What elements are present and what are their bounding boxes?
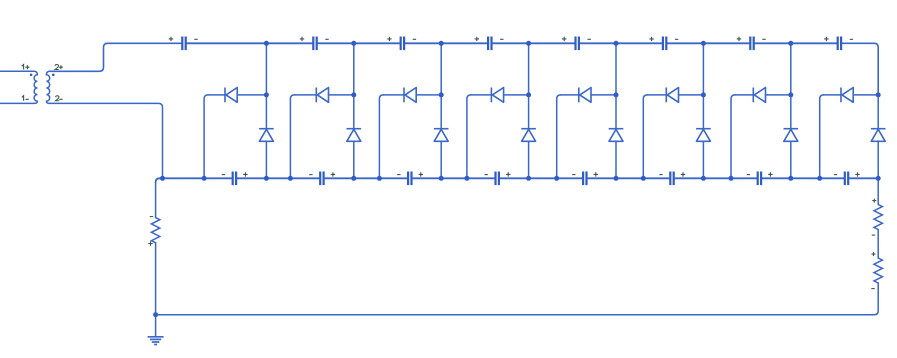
wire top rail right end + right rail upper bbox=[842, 43, 878, 95]
transformer T1 secondary winding bbox=[46, 71, 50, 103]
transformer T1 secondary phase dot bbox=[52, 74, 55, 77]
wire primary input bottom bbox=[0, 102, 34, 104]
diode D15 (vertical, points up) bbox=[784, 129, 799, 142]
wire vertical rail 2 upper bbox=[353, 43, 355, 128]
wire top rail segment 3 bbox=[405, 42, 487, 44]
wire bottom rail segment 5 bbox=[588, 177, 670, 179]
pin label 1- bbox=[22, 96, 29, 101]
wire vertical rail 6 upper bbox=[702, 43, 704, 128]
ground bbox=[148, 337, 164, 345]
capacitor C9 (bottom rail) bbox=[222, 172, 248, 186]
transformer T1 primary phase dot bbox=[30, 74, 33, 77]
wire vertical rail 6 lower bbox=[702, 141, 704, 178]
capacitor C5 (top rail) bbox=[562, 37, 591, 51]
wire secondary top to top rail bbox=[50, 43, 181, 71]
wire right rail bottom-to-R2 bbox=[877, 178, 879, 204]
wire bottom rail right end bbox=[849, 177, 878, 179]
wire vertical rail 2 lower bbox=[353, 141, 355, 178]
capacitor C1 (top rail) bbox=[169, 37, 198, 51]
diode D14 (vertical, points up) bbox=[696, 129, 711, 142]
diode D12 (vertical, points up) bbox=[521, 129, 536, 142]
wire vertical rail 4 lower bbox=[528, 141, 530, 178]
diode D5 (horizontal, points left) bbox=[561, 88, 616, 103]
diode D11 (vertical, points up) bbox=[434, 129, 449, 142]
wire secondary bottom return bbox=[50, 103, 163, 178]
capacitor C16 (bottom rail) bbox=[834, 172, 860, 186]
junction dots diode row bbox=[264, 92, 881, 97]
wire vertical rail 3 lower bbox=[440, 141, 442, 178]
wire top rail segment 7 bbox=[755, 42, 837, 44]
wire cell 2 left drop bbox=[290, 95, 294, 178]
wire cell 6 left drop bbox=[643, 95, 647, 178]
wire primary input top bbox=[0, 70, 34, 72]
wire right rail lower + bottom return bbox=[156, 283, 879, 315]
wire vertical rail 5 lower bbox=[615, 141, 617, 178]
wire left rail upper bbox=[155, 182, 157, 217]
wire vertical rail 5 upper bbox=[615, 43, 617, 128]
capacitor C15 (bottom rail) bbox=[747, 172, 773, 186]
capacitor C2 (top rail) bbox=[300, 37, 329, 51]
diode D3 (horizontal, points left) bbox=[383, 88, 441, 103]
wire vertical rail 4 upper bbox=[528, 43, 530, 128]
diode D10 (vertical, points up) bbox=[347, 129, 362, 142]
diode D8 (horizontal, points left) bbox=[824, 88, 879, 103]
wire vertical rail 8 lower bbox=[877, 141, 879, 178]
capacitor C11 (bottom rail) bbox=[397, 172, 423, 186]
wire vertical rail 1 lower bbox=[265, 141, 267, 178]
wire vertical rail 1 upper bbox=[265, 43, 267, 128]
diode D1 (horizontal, points left) bbox=[208, 88, 266, 103]
capacitor C12 (bottom rail) bbox=[485, 172, 511, 186]
diode D13 (vertical, points up) bbox=[609, 129, 624, 142]
wire right rail between resistors bbox=[877, 230, 879, 259]
diode D7 (horizontal, points left) bbox=[735, 88, 791, 103]
wire bottom rail segment 4 bbox=[500, 177, 582, 179]
wire cell 7 left drop bbox=[731, 95, 735, 178]
junction dots top rail bbox=[264, 41, 793, 46]
capacitor C6 (top rail) bbox=[649, 37, 678, 51]
wire vertical rail 8 mid bbox=[877, 95, 879, 129]
resistor R3 (right load lower) bbox=[874, 258, 882, 283]
wire top rail segment 4 bbox=[493, 42, 575, 44]
resistor R1 (left load) bbox=[151, 218, 159, 243]
wire bottom rail segment 7 bbox=[762, 177, 844, 179]
wire vertical rail 7 upper bbox=[790, 43, 792, 128]
diode D9 (vertical, points up) bbox=[259, 129, 274, 142]
label R3 - bbox=[871, 288, 874, 290]
diode D16 (vertical, points up) bbox=[871, 129, 886, 142]
wire top rail segment 5 bbox=[580, 42, 662, 44]
wire top rail segment 6 bbox=[667, 42, 749, 44]
wire vertical rail 3 upper bbox=[440, 43, 442, 128]
wire bottom rail left end bbox=[156, 178, 232, 182]
wire bottom rail segment 1 bbox=[237, 177, 319, 179]
label R1 + bbox=[148, 241, 152, 245]
label R1 - bbox=[150, 216, 153, 218]
wire bottom rail segment 6 bbox=[675, 177, 757, 179]
pin label 2- bbox=[56, 96, 63, 101]
label R3 + bbox=[872, 252, 876, 256]
wire cell 1 left drop bbox=[204, 95, 208, 178]
pin label 2+ bbox=[55, 65, 63, 70]
label R2 - bbox=[872, 234, 875, 236]
capacitor C13 (bottom rail) bbox=[572, 172, 598, 186]
wire cell 5 left drop bbox=[557, 95, 561, 178]
capacitor C14 (bottom rail) bbox=[659, 172, 685, 186]
capacitor C4 (top rail) bbox=[475, 37, 504, 51]
capacitor C8 (top rail) bbox=[824, 37, 853, 51]
resistor R2 (right load upper) bbox=[874, 205, 882, 230]
pin label 1+ bbox=[22, 65, 30, 70]
wire cell 4 left drop bbox=[467, 95, 471, 178]
wire bottom rail segment 2 bbox=[325, 177, 407, 179]
junction dots bottom rail bbox=[160, 176, 881, 181]
wire left rail lower bbox=[155, 243, 157, 337]
wire top rail segment 2 bbox=[318, 42, 400, 44]
wire bottom rail segment 3 bbox=[413, 177, 495, 179]
diode D6 (horizontal, points left) bbox=[647, 88, 703, 103]
diode D4 (horizontal, points left) bbox=[471, 88, 529, 103]
junction dot ground node bbox=[153, 312, 158, 317]
label R2 + bbox=[872, 199, 876, 203]
capacitor C3 (top rail) bbox=[387, 37, 416, 51]
wire cell 8 left drop bbox=[820, 95, 824, 178]
capacitor C7 (top rail) bbox=[737, 37, 766, 51]
capacitor C10 (bottom rail) bbox=[309, 172, 335, 186]
transformer T1 primary winding bbox=[34, 71, 38, 103]
wire top rail segment 1 bbox=[187, 42, 312, 44]
wire cell 3 left drop bbox=[379, 95, 383, 178]
diode D2 (horizontal, points left) bbox=[294, 88, 353, 103]
wire vertical rail 7 lower bbox=[790, 141, 792, 178]
